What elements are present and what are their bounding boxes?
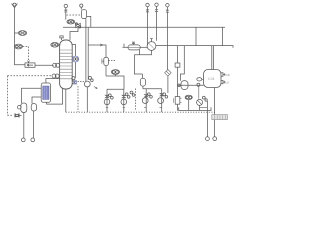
wire main right line	[156, 46, 233, 48]
wire parallel line	[87, 28, 89, 80]
heater hatched box	[212, 115, 228, 120]
wire vertical right drop	[222, 27, 224, 45]
signal dashed center long	[135, 89, 137, 111]
top vent circles row	[146, 3, 149, 45]
header pumps 3/4	[143, 89, 162, 94]
trough bracket bottom right	[179, 107, 211, 110]
pump cluster 4	[158, 89, 168, 112]
dashed below column cluster	[77, 86, 79, 112]
instrument PI-1	[18, 31, 26, 36]
angled valve right	[165, 70, 172, 94]
signal dashed column bottom	[78, 80, 85, 82]
vent circle B	[80, 4, 83, 10]
pump P-5	[197, 96, 210, 140]
signal dashed vertical left	[7, 76, 13, 116]
wire column right side	[72, 45, 75, 57]
svg-text:LG: LG	[226, 80, 230, 84]
column trays	[60, 50, 72, 79]
vessel outlet line left	[178, 84, 204, 86]
vessel nozzles right	[221, 73, 230, 85]
instrument FT feed	[53, 63, 62, 67]
instrument blue TI	[72, 56, 79, 62]
control valve overhead (bowtie)	[75, 23, 80, 28]
compressor circle K-1	[140, 39, 156, 51]
wire bottoms to reboiler	[47, 88, 63, 104]
top header line	[63, 26, 225, 28]
wire feed to column	[35, 64, 54, 66]
wire reboiler return	[46, 79, 60, 83]
reboiler E-1	[41, 83, 50, 102]
wire drum right outlet	[87, 16, 91, 27]
wire branch to reboiler valve	[88, 45, 106, 58]
drum horizontal E-2	[123, 42, 141, 50]
control valve FV-1	[25, 63, 35, 67]
valve on dashed drain	[15, 114, 22, 118]
svg-text:V-04: V-04	[208, 77, 215, 81]
vessel V-1	[204, 70, 222, 88]
flanged valve 177.5	[174, 97, 182, 111]
wire mid horizontal	[106, 76, 124, 89]
vessel bottom pipe	[214, 88, 216, 137]
wire vertical to main line	[195, 27, 197, 45]
pump cluster 3	[142, 93, 152, 112]
bypass U loop	[134, 50, 151, 55]
control valve center	[102, 57, 116, 65]
instrument FI mid	[111, 70, 119, 76]
signal dashed drum	[67, 14, 82, 16]
pump cluster 1	[104, 89, 124, 112]
vessel top pipes	[212, 46, 214, 70]
vent circle A	[64, 4, 67, 19]
vent valve top-left	[12, 3, 18, 8]
pump P-2 left	[31, 104, 37, 142]
column C-1 shell	[60, 40, 73, 89]
wire vertical feed line left	[15, 8, 26, 65]
vent fitting column top	[60, 36, 63, 40]
instrument PC overhead	[67, 20, 75, 24]
reflux drum D-1	[81, 10, 86, 19]
valve cluster column bottom right	[72, 77, 77, 84]
instrument LT column	[52, 74, 61, 78]
small box on line 177.5	[175, 46, 180, 97]
instrument FC-1	[15, 44, 23, 49]
bottom dotted line	[66, 111, 215, 113]
instrument FI bottom right	[185, 95, 192, 110]
pump cluster 2	[121, 89, 135, 112]
wire pump1 to reboiler	[22, 88, 42, 103]
node tick to PI	[15, 32, 19, 34]
signal dashed long left	[7, 75, 52, 77]
wire pump2 to reboiler	[32, 97, 41, 104]
wire valve down	[105, 66, 107, 76]
instrument TI column top	[51, 43, 61, 48]
wire down from loop	[134, 55, 142, 74]
pump P-3 (below drum)	[84, 76, 93, 112]
wire column bottoms down	[65, 89, 67, 112]
instrument vessel left nozzle	[197, 78, 204, 81]
signal dashed FC1 to valve	[23, 47, 29, 62]
overhead vapor line	[70, 28, 78, 40]
svg-text:GD: GD	[226, 73, 230, 77]
signal arrow to pump	[94, 87, 97, 89]
pump P-1 left	[18, 103, 27, 142]
flow arrow on branch	[100, 44, 103, 46]
control valve vertical capsule	[140, 74, 145, 89]
wire drum bottom to pump	[85, 19, 87, 82]
control valve station vessel outlet	[178, 46, 200, 99]
